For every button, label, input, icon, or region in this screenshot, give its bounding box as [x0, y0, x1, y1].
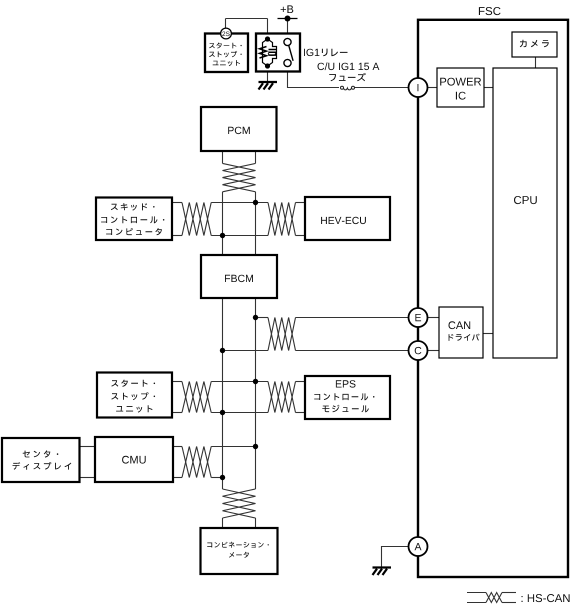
label CAN	[449, 321, 471, 329]
CPU box	[493, 68, 557, 358]
wire row3 CAN-H	[172, 381, 182, 383]
junction row1 CAN-H	[253, 200, 258, 205]
wire bus to E	[256, 317, 269, 319]
label PCM	[228, 127, 250, 134]
+B terminal bar	[278, 18, 298, 20]
CAN-H bus upper	[255, 192, 257, 255]
twisted pair bus to EPS	[268, 382, 296, 413]
label C/U IG1 15A fuse	[318, 62, 380, 70]
CAN-L meter stub	[222, 518, 224, 528]
start-stop unit box (row3)	[97, 373, 172, 418]
wire 2S to relay coil (up)	[225, 19, 227, 29]
junction +B dot	[285, 16, 291, 22]
FSC module box	[418, 20, 568, 577]
wire CAN driver to CPU	[483, 333, 493, 335]
label center display	[23, 450, 59, 457]
CAN driver box	[439, 307, 483, 358]
label fuse	[329, 73, 366, 81]
wire POWER IC to CPU	[484, 87, 493, 89]
twisted pair skid-control to bus	[182, 203, 211, 236]
POWER IC box	[437, 68, 484, 107]
junction relay coil top	[265, 36, 270, 41]
label A	[415, 543, 422, 550]
junction C branch	[220, 348, 225, 353]
wire row1 CAN-L	[172, 235, 182, 237]
label FSC	[479, 7, 501, 15]
PCM box	[201, 107, 277, 151]
CAN-L bus upper	[222, 192, 224, 255]
twisted pair start-stop-unit to bus	[182, 382, 211, 413]
connector E	[409, 308, 428, 327]
wire E to CAN driver	[428, 317, 440, 319]
label 2S	[222, 32, 229, 37]
connector I	[409, 78, 428, 97]
junction E branch	[253, 315, 258, 320]
center display box	[2, 438, 80, 482]
wire relay switch to fuse	[288, 63, 340, 87]
label start-stop unit (row3)	[111, 380, 155, 387]
label HS-CAN	[522, 594, 570, 602]
legend twisted pair symbol	[467, 592, 486, 594]
ground (relay)	[259, 81, 278, 83]
label skid control computer	[111, 203, 155, 211]
label I	[417, 84, 420, 91]
label CMU	[122, 456, 146, 464]
wire fuse to connector I	[355, 87, 409, 89]
label HEV-ECU	[321, 217, 366, 224]
camera box	[512, 32, 557, 57]
wire bus to C	[223, 350, 269, 352]
relay switch	[284, 38, 291, 45]
label E	[415, 314, 421, 321]
wire display-CMU 1	[80, 446, 96, 448]
twisted pair bus to combination meter	[223, 489, 256, 518]
label C	[415, 347, 422, 354]
CAN-H bus lower	[255, 298, 257, 489]
twisted pair bus to FSC	[268, 318, 296, 351]
label combination meter	[207, 542, 269, 548]
label driver	[449, 334, 480, 341]
twisted pair CMU to bus	[182, 447, 211, 478]
wire display-CMU 2	[80, 477, 96, 479]
wire C to CAN driver	[428, 350, 440, 352]
junction CMU CAN-H	[253, 444, 258, 449]
twisted pair bus to HEV-ECU	[268, 203, 296, 236]
label POWER	[440, 78, 481, 86]
combination meter box	[201, 528, 278, 574]
HEV-ECU box	[305, 197, 390, 240]
wire CMU CAN-L	[173, 477, 182, 479]
label IG1 relay	[304, 49, 319, 56]
connector A	[409, 537, 428, 556]
label start-stop unit (top)	[209, 43, 242, 49]
wire CMU CAN-H	[173, 446, 182, 448]
twisted pair PCM to bus	[223, 163, 256, 191]
EPS control module box	[305, 376, 390, 419]
CAN-L bus PCM stub	[222, 151, 224, 163]
junction relay coil bottom	[265, 63, 270, 68]
junction row3 CAN-H	[253, 379, 258, 384]
label +B	[281, 5, 294, 13]
wire I to POWER IC	[428, 87, 438, 89]
wire camera to CPU	[535, 57, 537, 68]
fuse	[341, 86, 344, 89]
wire row1 CAN-H	[172, 202, 182, 204]
connector C	[409, 341, 428, 360]
junction row1 CAN-L	[220, 233, 225, 238]
label FBCM	[225, 275, 253, 282]
label CPU	[514, 196, 537, 204]
CMU box	[95, 437, 173, 482]
CAN-H meter stub	[255, 518, 257, 528]
wire A to ground	[382, 547, 409, 568]
FBCM box	[201, 255, 277, 298]
label camera	[520, 40, 549, 48]
wire relay coil to ground	[267, 68, 269, 82]
start-stop unit box (top)	[205, 34, 248, 73]
junction CMU CAN-L	[220, 475, 225, 480]
ground (FSC)	[373, 566, 392, 568]
skid control computer box	[96, 198, 172, 241]
IG1 relay box	[256, 34, 300, 72]
junction row3 CAN-L	[220, 410, 225, 415]
CAN-L bus lower	[222, 298, 224, 489]
connector 2S	[221, 28, 232, 39]
junction +B	[285, 16, 290, 21]
wire row3 CAN-L	[172, 412, 182, 414]
relay coil with resistor	[263, 39, 277, 66]
label EPS control module	[336, 380, 356, 387]
CAN-H bus PCM stub	[255, 151, 257, 163]
wire +B to relay switch	[287, 19, 289, 46]
